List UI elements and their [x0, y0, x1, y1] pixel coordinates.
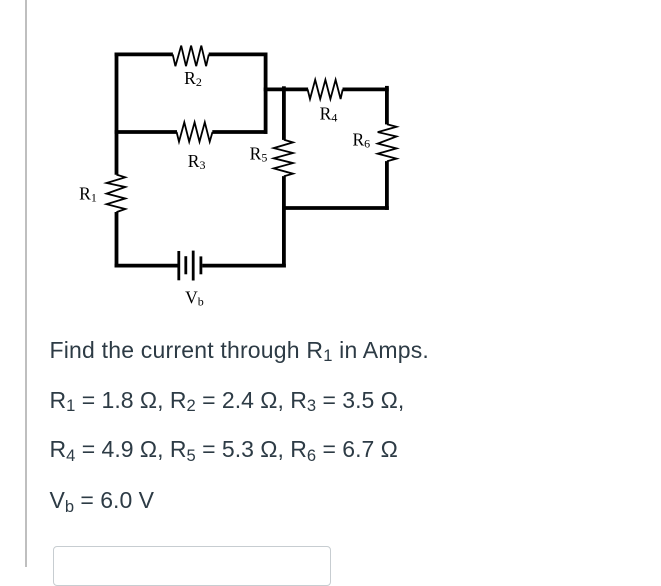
wire R5 vertical upper (junction at y89 down to R5) [282, 86, 286, 140]
wire R2 to top right corner [209, 53, 268, 57]
wire R4 to top of R6 branch [343, 88, 389, 92]
wire node B to R4 [264, 88, 308, 92]
resistor R1 [107, 175, 126, 213]
resistor R2 [173, 46, 209, 67]
resistor R4 [308, 80, 343, 99]
svg-text:R1: R1 [79, 183, 97, 204]
question text line 2 [50, 389, 405, 412]
svg-text:R3: R3 [188, 151, 206, 172]
answer input box [53, 546, 331, 586]
wire right vertical lower (R6 to bottom right wire) [385, 161, 389, 210]
battery Vb plate long left [177, 251, 180, 280]
left page divider line [25, 0, 27, 567]
wire battery to R5 branch [202, 264, 286, 268]
resistor R3 [177, 122, 213, 141]
wire bottom left (R1 to battery) [115, 264, 178, 268]
resistor R5 [274, 140, 293, 177]
battery Vb plate short inner-left [184, 256, 187, 274]
question text line 3 [50, 438, 398, 461]
wire bottom right (R5 branch to R6 branch) [282, 206, 389, 210]
resistor R6 [378, 124, 397, 161]
question text line 1 [50, 339, 430, 362]
wire R3 row left segment [115, 130, 177, 134]
wire mid vertical (top right corner down to R3 wire, node B) [264, 53, 268, 134]
question text line 4 [50, 489, 154, 512]
wire top left (node A to R2) [115, 53, 173, 57]
battery Vb plate short right [199, 256, 202, 274]
wire left vertical upper (node A down to R1) [115, 53, 119, 175]
battery Vb plate long right [192, 251, 195, 281]
wire R5 vertical lower (R5 down to bottom wire) [282, 176, 286, 267]
svg-text:R5: R5 [250, 144, 268, 165]
wire R3 row right segment [212, 130, 267, 134]
wire left vertical lower (R1 to bottom wire) [115, 212, 119, 268]
wire right vertical upper (R4 corner down to R6) [385, 86, 389, 125]
svg-text:R6: R6 [352, 130, 370, 151]
svg-text:R2: R2 [184, 68, 202, 89]
svg-text:Vb: Vb [185, 287, 204, 308]
svg-text:R4: R4 [320, 103, 338, 124]
